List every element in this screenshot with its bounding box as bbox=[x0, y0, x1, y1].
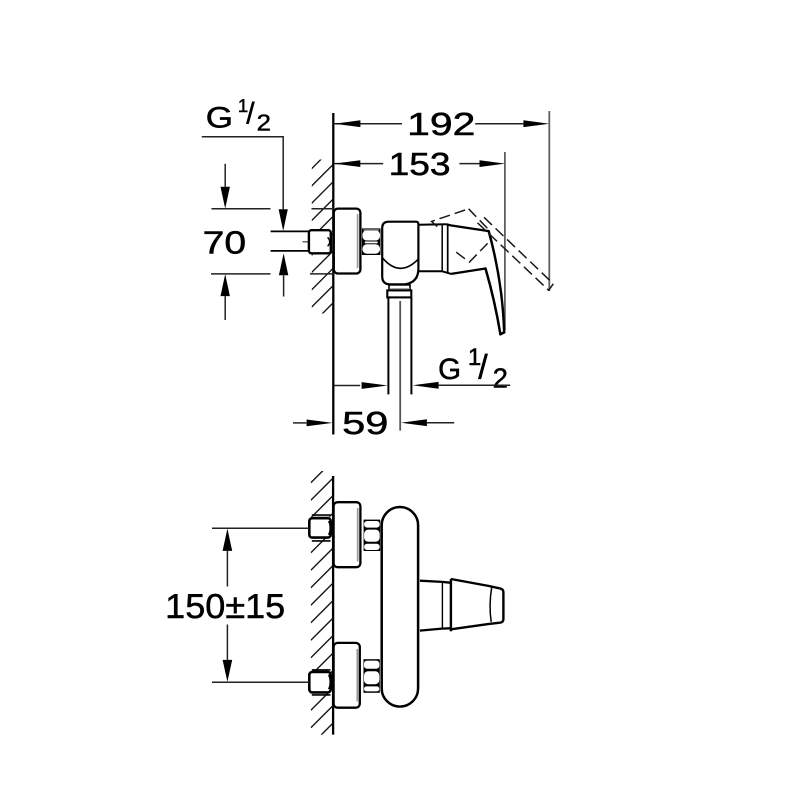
top S-union lower edge bbox=[312, 540, 331, 542]
hex union nut (side view) bbox=[362, 228, 381, 255]
dimension 153 line right segment bbox=[459, 163, 479, 165]
leader arrow down to pipe bbox=[279, 209, 288, 231]
wall hatching (side view) bbox=[311, 148, 332, 325]
svg-text:192: 192 bbox=[407, 106, 475, 142]
dimension 70 lower arrow tail bbox=[224, 296, 226, 320]
bottom escutcheon shading line bbox=[356, 649, 358, 702]
cartridge dome arc bbox=[382, 258, 418, 269]
spout cone bottom edge bbox=[451, 623, 500, 630]
bottom square nut (front view) bbox=[309, 672, 330, 693]
dimension 59 right tail bbox=[427, 422, 454, 424]
dimension 150±15 lower reference line bbox=[212, 681, 309, 683]
escutcheon flange shading line bbox=[357, 214, 359, 268]
collar seam bbox=[447, 225, 449, 273]
leader arrow tail below pipe bbox=[283, 275, 285, 296]
bottom S-union upper edge bbox=[312, 669, 331, 671]
leader line G 1/2 lower left bbox=[334, 385, 360, 387]
dimension 70 upper arrow bbox=[221, 187, 230, 209]
escutcheon flange (side view) bbox=[334, 209, 361, 274]
dimension 59 right arrow bbox=[401, 419, 427, 426]
wall line (side view) bbox=[332, 113, 334, 435]
barrel bottom edge bbox=[418, 270, 442, 272]
svg-text:G: G bbox=[206, 101, 233, 134]
svg-text:2: 2 bbox=[257, 110, 271, 136]
barrel seam bbox=[441, 225, 443, 272]
handle cone top edge (side view) bbox=[446, 224, 489, 231]
dimension 150±15 upper arrow bbox=[223, 529, 233, 551]
spout cone top edge bbox=[451, 579, 500, 588]
top escutcheon flange (front view) bbox=[334, 502, 361, 567]
spout cone left edge bbox=[450, 579, 452, 631]
dimension 153 left arrow bbox=[334, 160, 360, 167]
dimension 70 lower reference line across wall bbox=[310, 273, 334, 275]
hose outlet ring 1 shading bbox=[390, 288, 410, 290]
handle cone bottom edge (side view) bbox=[451, 269, 485, 274]
spout seam bbox=[441, 582, 443, 628]
dimension 70 upper arrow tail bbox=[224, 164, 226, 187]
spout end cap inner arc bbox=[490, 587, 492, 622]
collar bottom edge bbox=[442, 271, 451, 274]
dimension 59 left arrow bbox=[307, 420, 333, 427]
top square nut (front view) bbox=[309, 518, 330, 537]
leader line G 1/2 lower right bbox=[439, 384, 511, 386]
supply pipe bottom line (side view) bbox=[271, 250, 310, 252]
bottom hex nut (front view) bbox=[364, 659, 380, 693]
shower hose left line bbox=[387, 297, 389, 394]
dimension 150±15 line lower segment bbox=[226, 625, 228, 660]
leader line G 1/2 top bbox=[202, 137, 283, 210]
leader arrow left to hose bbox=[413, 382, 439, 389]
spout neck bottom edge (front view) bbox=[420, 628, 450, 630]
svg-text:/: / bbox=[478, 349, 488, 387]
pipe centerline (dash-dot) bbox=[303, 241, 337, 243]
dimension 70 lower arrow bbox=[221, 274, 230, 296]
dimension 153 line left segment bbox=[334, 163, 383, 165]
leader arrow right to hose bbox=[362, 382, 388, 389]
svg-text:70: 70 bbox=[203, 225, 247, 261]
dimension 150±15 lower arrow bbox=[223, 660, 233, 682]
top escutcheon shading line bbox=[357, 508, 359, 562]
dimension 70 upper reference line across wall bbox=[312, 208, 334, 210]
bottom escutcheon flange (front view) bbox=[334, 643, 360, 708]
svg-text:59: 59 bbox=[342, 405, 388, 441]
top S-union upper shading bbox=[312, 516, 331, 518]
valve body cylinder (side view) bbox=[382, 222, 418, 285]
svg-text:153: 153 bbox=[389, 146, 451, 182]
shower hose right line bbox=[410, 297, 412, 394]
spout end cap right edge bbox=[500, 588, 504, 622]
wall line (front view) bbox=[332, 476, 334, 735]
dimension 70 lower reference line bbox=[211, 273, 271, 275]
hose outlet ring 1 bbox=[389, 285, 410, 290]
body capsule (front view) bbox=[382, 507, 418, 707]
svg-text:/: / bbox=[246, 98, 255, 131]
dimension 70 upper reference line bbox=[212, 208, 271, 210]
dimension 192 left arrow bbox=[334, 120, 360, 127]
extension line for 192 (raised handle tip) bbox=[548, 111, 550, 291]
dimension 150±15 line upper segment bbox=[226, 551, 228, 587]
wall hatching (front view) bbox=[311, 461, 333, 763]
top S-union upper edge bbox=[312, 514, 331, 516]
extension line for 153 (handle tip) bbox=[504, 152, 506, 330]
top hex nut (front view) bbox=[364, 520, 381, 551]
hose coupling ring 2 bbox=[387, 290, 411, 297]
dimension 59 left tail bbox=[293, 422, 306, 424]
svg-text:2: 2 bbox=[493, 363, 508, 394]
spout neck top edge (front view) bbox=[420, 581, 450, 583]
dimension 150±15 upper reference line bbox=[212, 527, 309, 529]
barrel top edge bbox=[418, 223, 446, 226]
dimension 192 line left segment bbox=[334, 123, 402, 125]
dimension 153 right arrow bbox=[480, 160, 506, 167]
label G 1/2 (hose thread callout) bbox=[438, 344, 508, 394]
svg-text:150±15: 150±15 bbox=[165, 588, 285, 626]
hose centerline / extension for 59 bbox=[399, 301, 401, 431]
dimension 192 line right segment bbox=[475, 123, 523, 125]
top square nut inner arc bbox=[329, 521, 331, 535]
bottom square nut inner arc bbox=[329, 675, 331, 690]
dashed raised handle outline bbox=[432, 209, 554, 290]
leader arrow up to pipe underside bbox=[279, 253, 288, 275]
square union nut (side view) bbox=[309, 230, 331, 253]
dimension 192 right arrow bbox=[523, 120, 549, 127]
supply pipe top line (side view) bbox=[271, 230, 310, 232]
svg-text:G: G bbox=[438, 353, 461, 386]
handle lever (side view) bbox=[486, 231, 505, 334]
label G 1/2 (top left thread callout) bbox=[206, 95, 271, 135]
square union nut inner arc bbox=[328, 237, 330, 246]
bottom S-union lower edge bbox=[312, 694, 331, 696]
